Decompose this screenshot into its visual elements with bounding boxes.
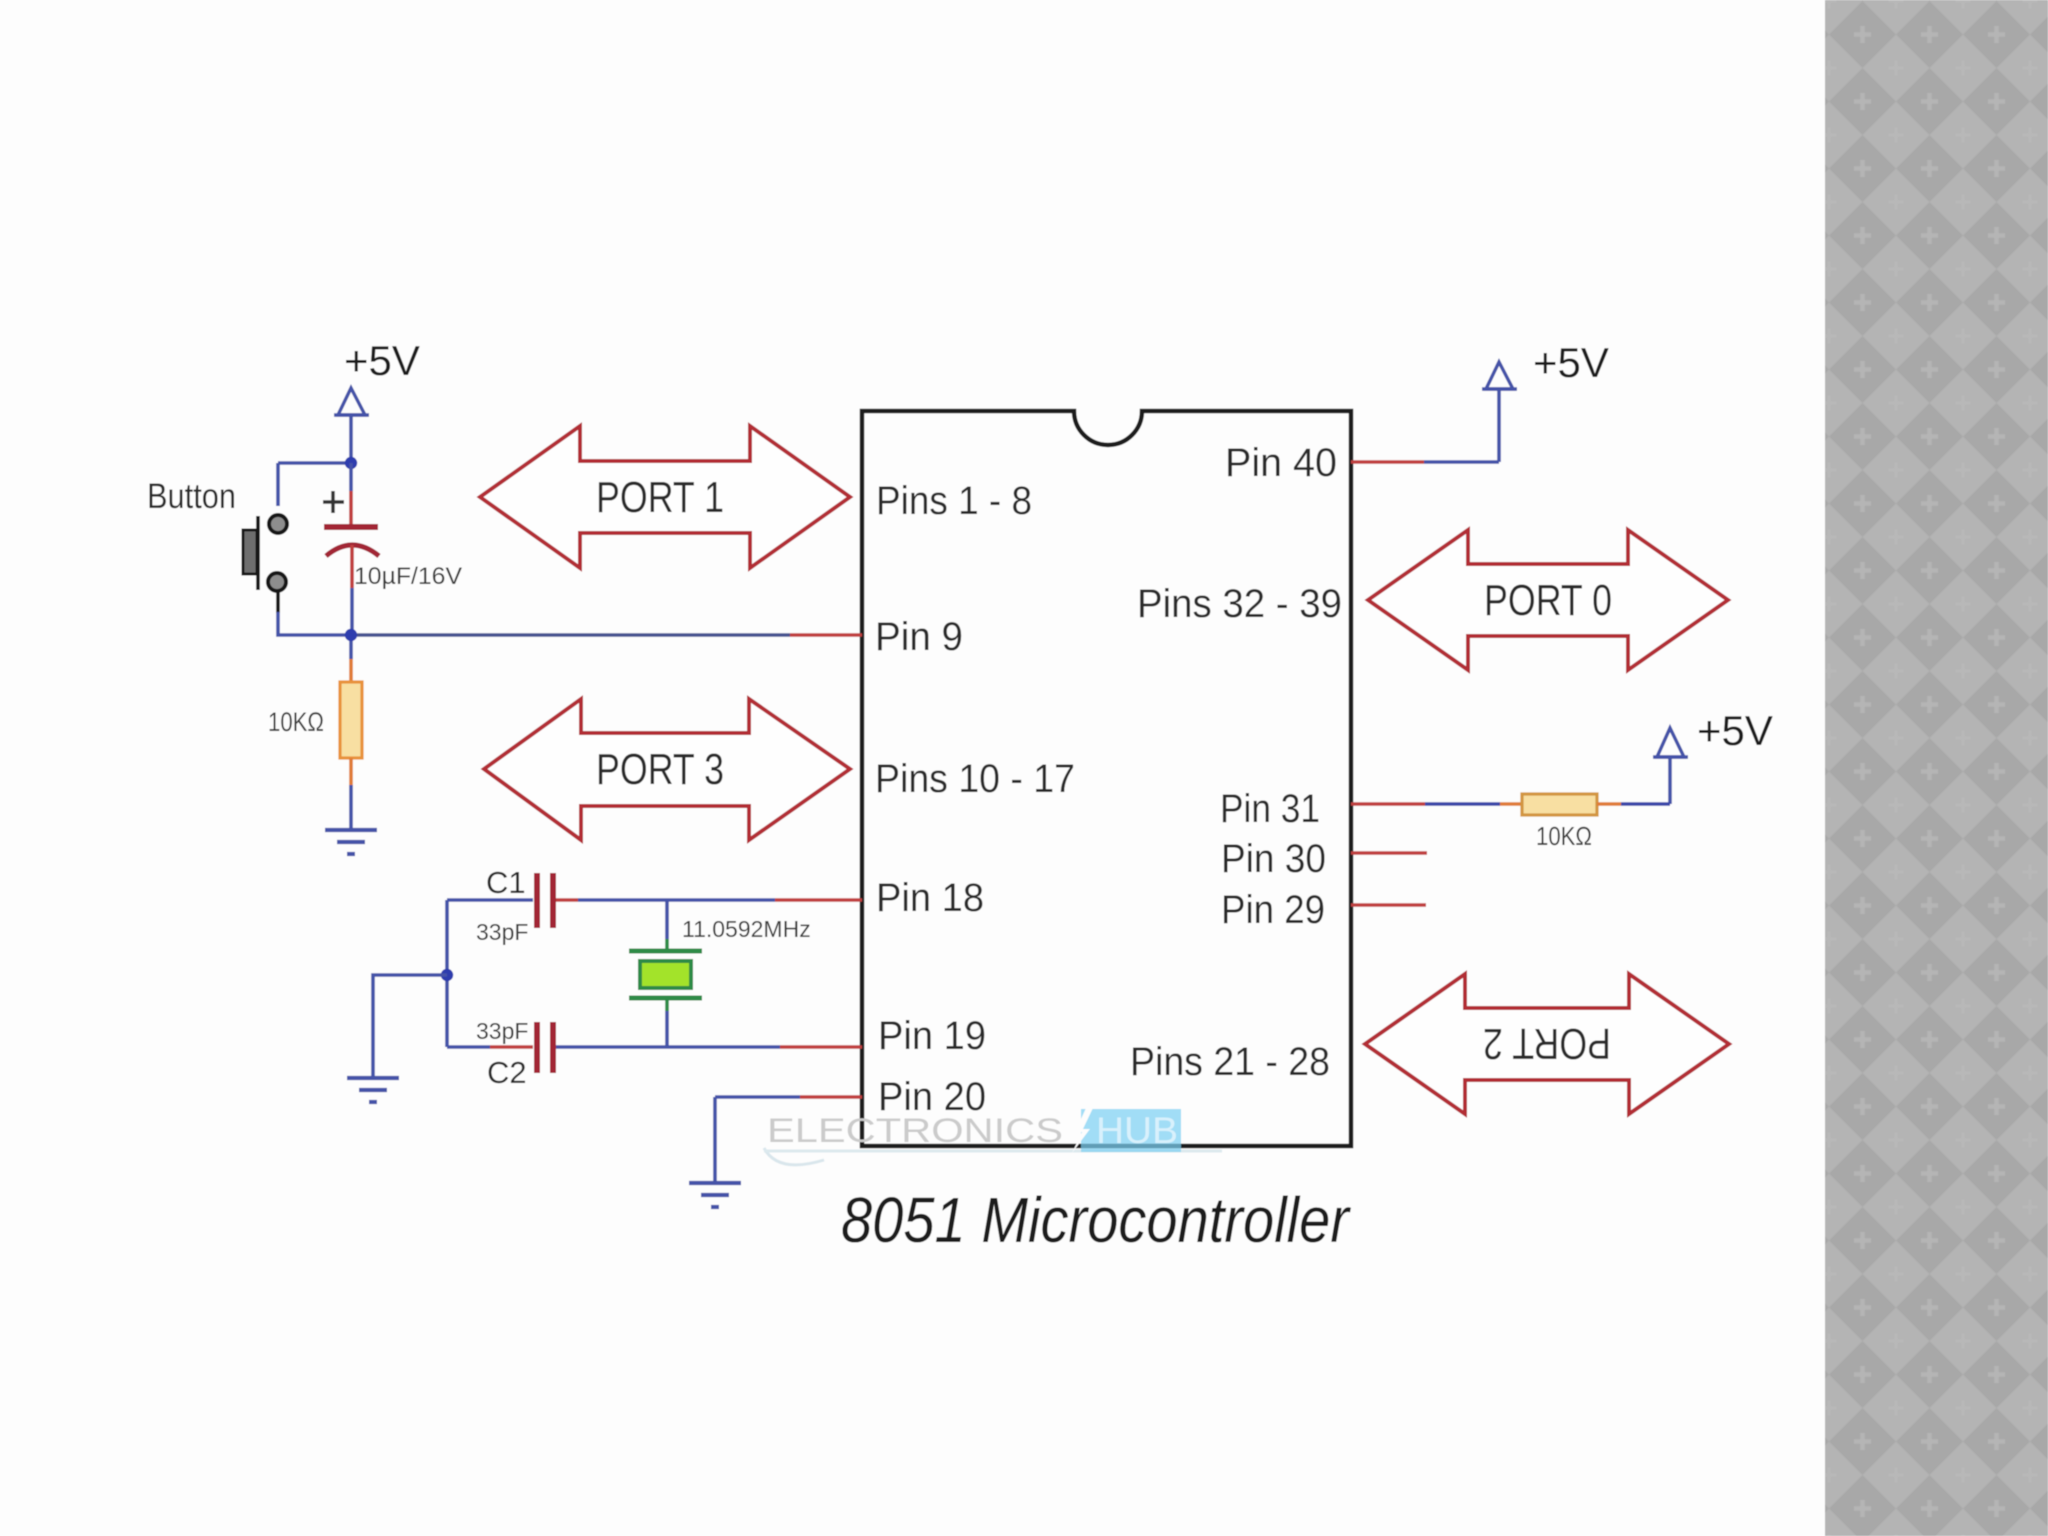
wire: C1 to Pin 18: [556, 898, 578, 902]
crystal X1 11.0592MHz: [629, 900, 702, 1047]
wire: C2 left lead: [447, 1045, 490, 1049]
wire: left bus down from C1 to C2: [445, 900, 449, 1047]
wire: Pin 20 to ground: [715, 1095, 800, 1099]
svg-text:+5V: +5V: [344, 337, 420, 384]
wire: R2 to +5V: [1597, 802, 1621, 806]
wire: Pin 31 to pull-up: [1351, 802, 1425, 806]
wire: C1 left lead: [447, 898, 533, 902]
PORT 3 bidirectional arrow: [484, 699, 850, 840]
wire red segment at Pin 9: [790, 633, 862, 637]
PORT 2 bidirectional arrow (label rotated 180): [1365, 974, 1729, 1114]
resistor R2 10K pull-up: [1522, 794, 1597, 815]
svg-text:8051 Microcontroller: 8051 Microcontroller: [841, 1184, 1351, 1256]
ground symbol (Pin 20): [689, 1183, 741, 1207]
svg-text:PORT 3: PORT 3: [596, 745, 724, 794]
push button SW1: [243, 515, 287, 613]
svg-text:HUB: HUB: [1096, 1110, 1178, 1151]
svg-text:33pF: 33pF: [476, 1018, 528, 1044]
svg-text:10KΩ: 10KΩ: [268, 707, 324, 737]
wire: Pin 29 stub: [1351, 903, 1426, 907]
+5V power symbol (right, pin 31 pull-up): [1653, 707, 1773, 804]
svg-text:10KΩ: 10KΩ: [1536, 821, 1592, 851]
svg-text:Pin 18: Pin 18: [876, 876, 984, 920]
svg-text:Pin 30: Pin 30: [1221, 837, 1326, 881]
svg-text:Pin 40: Pin 40: [1225, 441, 1337, 485]
svg-text:Pin 19: Pin 19: [878, 1014, 986, 1058]
svg-text:ELECTRONICS: ELECTRONICS: [767, 1112, 1063, 1150]
wire: top-left node to button: [278, 463, 351, 506]
svg-text:Pins 21 - 28: Pins 21 - 28: [1130, 1040, 1330, 1084]
svg-text:33pF: 33pF: [476, 919, 528, 945]
svg-text:Button: Button: [147, 477, 236, 516]
capacitor C2 33pF plates: [537, 1022, 553, 1073]
ground symbol (below R1): [325, 830, 377, 854]
node C junction dot: [441, 969, 453, 981]
capacitor C3 10uF/16V electrolytic: [323, 463, 379, 633]
svg-text:C2: C2: [487, 1055, 527, 1090]
IC U1 8051 microcontroller body with pin-1 notch: [862, 411, 1351, 1146]
svg-text:+5V: +5V: [1533, 339, 1609, 386]
wire: node B to Pin 9: [357, 633, 790, 637]
wire: button bottom to lower node: [278, 612, 351, 635]
PORT 1 bidirectional arrow: [480, 426, 850, 568]
svg-text:Pin 9: Pin 9: [875, 615, 963, 659]
svg-text:11.0592MHz: 11.0592MHz: [682, 916, 811, 942]
svg-text:Pins 10 - 17: Pins 10 - 17: [875, 757, 1075, 801]
wire: node C to ground stub: [373, 975, 447, 1077]
node A junction dot: [345, 457, 357, 469]
+5V power symbol (top left): [334, 337, 420, 463]
svg-text:C1: C1: [486, 865, 526, 900]
svg-text:Pins 1 - 8: Pins 1 - 8: [876, 479, 1032, 523]
svg-text:PORT 1: PORT 1: [596, 473, 724, 522]
node B junction dot: [345, 629, 357, 641]
watermark electronics hub: [764, 1108, 1222, 1165]
ground symbol (crystal caps): [347, 1078, 399, 1102]
svg-text:Pin 29: Pin 29: [1221, 888, 1325, 932]
svg-text:PORT 2: PORT 2: [1483, 1019, 1611, 1068]
svg-text:Pin 31: Pin 31: [1220, 787, 1320, 831]
svg-text:+5V: +5V: [1697, 707, 1773, 754]
capacitor C1 33pF plates: [537, 873, 553, 928]
svg-text:Pins 32 - 39: Pins 32 - 39: [1137, 582, 1342, 626]
wire: Pin 40 to +5V: [1351, 460, 1424, 464]
resistor R1 10K pull-down: [340, 641, 362, 829]
svg-text:10µF/16V: 10µF/16V: [354, 563, 462, 590]
wire: Pin 30 stub: [1351, 851, 1427, 855]
+5V power symbol (top right, pin 40): [1482, 339, 1609, 462]
PORT 0 bidirectional arrow: [1368, 530, 1728, 670]
wire: C2 to Pin 19: [556, 1045, 780, 1049]
svg-text:PORT 0: PORT 0: [1484, 576, 1612, 625]
